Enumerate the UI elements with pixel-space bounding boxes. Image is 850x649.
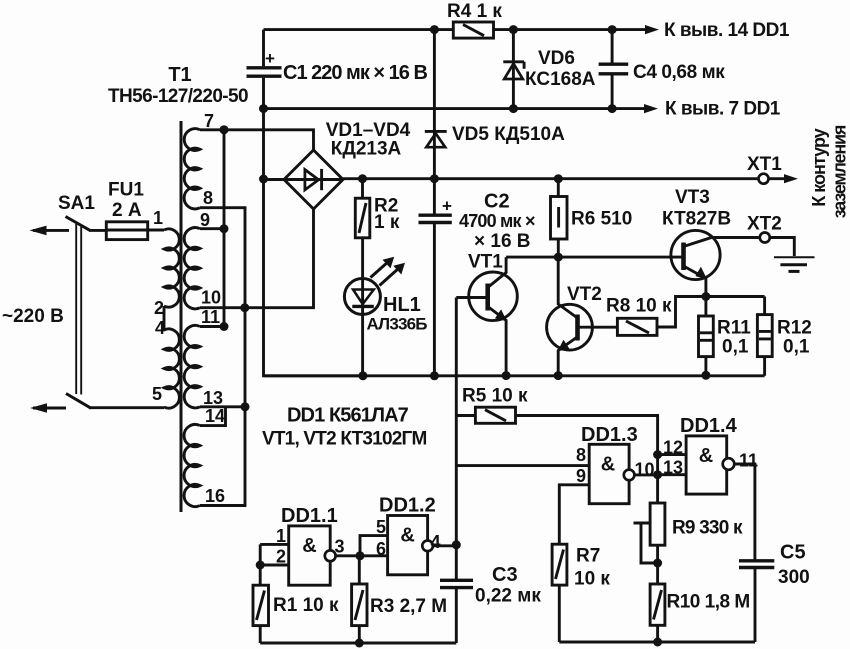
- transistor VT1: [456, 257, 517, 376]
- svg-text:DD1.3: DD1.3: [581, 424, 638, 446]
- svg-text:FU1: FU1: [108, 180, 144, 201]
- wire pin11 stub: [200, 325, 224, 328]
- node junction dots gnd rail: [259, 104, 617, 113]
- svg-text:КС168А: КС168А: [525, 69, 596, 90]
- resistor R2: [355, 179, 370, 238]
- wire bridge minus to left vertex: [264, 178, 285, 181]
- svg-text:2: 2: [154, 298, 164, 318]
- resistor R12: [757, 297, 772, 376]
- svg-text:10: 10: [201, 288, 221, 308]
- transformer T1 core: [180, 121, 183, 512]
- svg-text:2: 2: [276, 547, 286, 567]
- wire ground rail: [264, 371, 765, 381]
- LED HL1: [344, 238, 405, 376]
- svg-text:300: 300: [778, 567, 810, 588]
- label HL1: [367, 294, 428, 334]
- svg-text:~220 В: ~220 В: [2, 306, 64, 327]
- wire oscillator bottom rail right: [559, 638, 755, 647]
- label T1: [108, 64, 248, 107]
- svg-text:13: 13: [203, 388, 223, 408]
- svg-text:заземления: заземления: [830, 125, 850, 218]
- wire bus pins 7-9-11: [220, 125, 229, 331]
- svg-text:3: 3: [335, 537, 345, 557]
- svg-text:+: +: [442, 197, 452, 216]
- svg-text:К выв. 14 DD1: К выв. 14 DD1: [664, 20, 790, 41]
- wire top VCC rail: [264, 25, 660, 34]
- svg-text:R4 1 к: R4 1 к: [447, 1, 502, 22]
- svg-text:К выв. 7 DD1: К выв. 7 DD1: [665, 99, 781, 120]
- gate DD1.3: [559, 444, 657, 544]
- svg-text:5: 5: [376, 517, 386, 537]
- transistor VT2: [547, 257, 618, 376]
- label VD1-VD4: [326, 120, 411, 160]
- svg-text:DD1.2: DD1.2: [379, 495, 436, 517]
- svg-text:ТН56-127/220-50: ТН56-127/220-50: [108, 86, 248, 107]
- svg-text:7: 7: [204, 111, 214, 131]
- terminal XT2: [760, 233, 795, 257]
- transformer T1 secondary winding 11-13: [184, 325, 200, 407]
- label VT3: [662, 187, 731, 230]
- capacitor C2: [419, 179, 453, 376]
- svg-text:5: 5: [152, 384, 162, 404]
- transistor VT3: [671, 230, 759, 296]
- svg-text:14: 14: [205, 406, 225, 426]
- svg-text:8: 8: [576, 445, 586, 465]
- svg-text:9: 9: [576, 466, 586, 486]
- svg-text:VT1: VT1: [468, 252, 503, 273]
- label R7: [574, 546, 610, 590]
- svg-text:10: 10: [635, 460, 655, 480]
- capacitor C1: [247, 30, 282, 109]
- wire C1/bridge minus vertical: [259, 109, 363, 376]
- svg-text:11: 11: [201, 307, 220, 327]
- svg-text:VT2: VT2: [567, 284, 602, 305]
- svg-text:C1 220 мк × 16 В: C1 220 мк × 16 В: [283, 62, 427, 84]
- label FU1: [108, 180, 144, 222]
- wire pin14 stub: [200, 407, 226, 426]
- terminal XT1: [759, 174, 799, 184]
- svg-text:10 к: 10 к: [574, 569, 610, 590]
- label DD1 type: [262, 405, 426, 450]
- svg-text:8: 8: [203, 188, 213, 208]
- svg-text:1 к: 1 к: [374, 212, 400, 233]
- svg-text:VT1, VT2 КТ3102ГМ: VT1, VT2 КТ3102ГМ: [262, 429, 426, 450]
- label C2 value: [459, 191, 535, 253]
- svg-text:XT1: XT1: [747, 154, 782, 175]
- resistor R5: [456, 407, 657, 503]
- transformer T1 secondary winding 9-10: [184, 228, 200, 309]
- svg-text:DD1.4: DD1.4: [680, 415, 738, 437]
- svg-text:&: &: [601, 454, 615, 476]
- svg-text:4700 мк ×: 4700 мк ×: [459, 211, 535, 231]
- svg-text:&: &: [302, 535, 316, 557]
- svg-text:4: 4: [431, 532, 441, 552]
- resistor R6: [551, 179, 568, 257]
- svg-text:× 16 В: × 16 В: [474, 231, 531, 252]
- svg-text:16: 16: [205, 486, 225, 506]
- svg-text:4: 4: [155, 318, 165, 338]
- transformer T1 primary winding 1-2: [164, 229, 179, 307]
- svg-text:R3 2,7 М: R3 2,7 М: [370, 596, 447, 617]
- label C3: [475, 564, 541, 607]
- svg-text:+: +: [265, 49, 275, 68]
- wire oscillator bottom rail left: [260, 639, 456, 648]
- label VD6: [525, 48, 596, 90]
- resistor R1: [253, 585, 269, 643]
- wire pin13 stub: [200, 405, 245, 408]
- transformer T1 primary winding 4-5: [164, 329, 179, 408]
- svg-text:C4 0,68 мк: C4 0,68 мк: [633, 62, 725, 83]
- wire VT1 base / R5 / DD1.3 pin8 / DD1.2 out vertical: [456, 298, 589, 581]
- svg-text:HL1: HL1: [383, 294, 421, 316]
- label R2: [374, 196, 400, 234]
- resistor R7: [552, 544, 567, 642]
- wire raw plus rail: [343, 174, 759, 183]
- zener VD6: [503, 30, 524, 109]
- resistor R3: [352, 556, 367, 643]
- svg-text:R12: R12: [777, 318, 812, 339]
- svg-text:R5 10 к: R5 10 к: [462, 386, 528, 407]
- label C5: [778, 542, 810, 589]
- svg-text:КТ827В: КТ827В: [662, 209, 731, 230]
- svg-text:АЛ336Б: АЛ336Б: [367, 315, 428, 334]
- wire pins 2-4 link: [163, 306, 166, 330]
- label К контуру заземления: [809, 125, 850, 218]
- svg-text:&: &: [699, 445, 713, 467]
- svg-text:VT3: VT3: [675, 187, 710, 208]
- svg-text:К контуру: К контуру: [809, 128, 829, 206]
- gate DD1.1: [256, 526, 388, 585]
- capacitor C3: [440, 580, 473, 643]
- transformer T1 secondary winding 14-16: [184, 424, 200, 506]
- wire pin9 stub: [200, 227, 224, 230]
- wire pin7 to bridge top: [200, 130, 314, 150]
- resistor R11: [699, 297, 714, 376]
- node junction dots top rail: [430, 25, 617, 34]
- capacitor C5: [739, 561, 774, 642]
- svg-text:6: 6: [376, 539, 386, 559]
- switch SA1: [30, 217, 165, 413]
- wire pin10 to bridge bottom: [200, 209, 314, 308]
- label R12: [777, 318, 812, 358]
- wire bus pins 8-10-13-16: [200, 208, 250, 506]
- svg-text:С2: С2: [484, 191, 510, 213]
- svg-text:DD1.1: DD1.1: [281, 505, 338, 527]
- svg-text:&: &: [400, 525, 414, 547]
- diode VD5: [425, 30, 447, 179]
- svg-text:9: 9: [200, 210, 210, 230]
- resistor R8: [617, 292, 764, 335]
- svg-text:1: 1: [276, 526, 286, 546]
- gate DD1.2: [356, 516, 461, 575]
- bridge VD1-VD4: [284, 150, 343, 209]
- svg-text:R11: R11: [717, 318, 751, 339]
- svg-text:0,1: 0,1: [722, 337, 749, 358]
- wire VT1 collector / VT3 base rail: [506, 253, 683, 262]
- svg-text:SA1: SA1: [58, 193, 95, 214]
- svg-text:1: 1: [153, 208, 163, 228]
- transformer T1 secondary winding 7-8: [184, 129, 200, 209]
- svg-text:С5: С5: [780, 542, 806, 564]
- svg-text:R9 330 к: R9 330 к: [672, 518, 743, 539]
- fuse FU1: [106, 222, 164, 240]
- svg-text:DD1 К561ЛА7: DD1 К561ЛА7: [287, 405, 409, 427]
- svg-text:0,1: 0,1: [783, 337, 810, 358]
- label R11: [717, 318, 751, 358]
- svg-text:КД213А: КД213А: [331, 139, 402, 160]
- svg-text:VD6: VD6: [538, 48, 575, 69]
- resistor R10: [650, 584, 665, 642]
- svg-text:2 А: 2 А: [112, 200, 142, 221]
- svg-text:VD5 КД510А: VD5 КД510А: [452, 124, 565, 145]
- svg-text:R7: R7: [576, 546, 600, 567]
- svg-text:R6 510: R6 510: [571, 209, 632, 230]
- svg-text:R10 1,8 М: R10 1,8 М: [667, 592, 750, 613]
- svg-text:0,22 мк: 0,22 мк: [475, 586, 541, 607]
- capacitor C4: [599, 30, 629, 109]
- svg-text:R1 10 к: R1 10 к: [273, 595, 339, 616]
- svg-text:С3: С3: [492, 564, 518, 586]
- svg-text:13: 13: [663, 458, 683, 478]
- wire GND rail to pin 7: [264, 104, 659, 113]
- svg-text:Т1: Т1: [168, 64, 191, 86]
- ground symbol: [774, 257, 815, 271]
- resistor R4: [453, 22, 493, 38]
- svg-text:R8 10 к: R8 10 к: [606, 296, 672, 317]
- svg-text:12: 12: [663, 438, 683, 458]
- gate DD1.4: [653, 436, 755, 560]
- svg-text:11: 11: [739, 451, 758, 471]
- trimmer R9: [634, 503, 665, 584]
- svg-text:XT2: XT2: [747, 214, 782, 235]
